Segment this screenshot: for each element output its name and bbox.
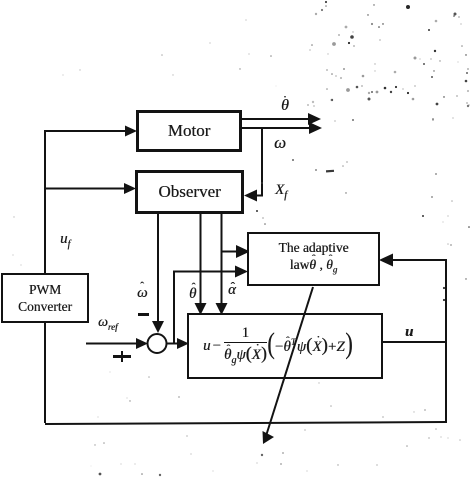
arrowhead: alpha-hat into control block	[216, 303, 228, 315]
wire: diagonal annotation arrow	[266, 287, 313, 436]
label: u_f	[60, 231, 70, 250]
arrowhead: into Observer	[124, 183, 136, 194]
label: plus at summing junction (horizontal stroke)	[113, 355, 131, 358]
label: minus at summing junction	[138, 313, 149, 316]
arrowhead: omega output	[309, 122, 322, 134]
arrowhead: into adaptive law upper input	[236, 245, 250, 258]
arrowhead: theta-hat into control block	[195, 303, 207, 315]
block: Observer	[135, 170, 244, 214]
wire: omega feedback down into Observer right side	[254, 129, 262, 196]
arrowhead: summing junction output into control block	[177, 338, 189, 349]
block: control law formula	[187, 313, 383, 379]
wire: omega-ref input	[86, 343, 137, 345]
block: PWM Converter	[1, 273, 89, 323]
wire: bottom feedback line	[45, 422, 446, 424]
label: plus at summing junction (vertical stroke)	[121, 351, 124, 362]
wire: alpha-hat from Observer down to control block	[221, 213, 223, 305]
label: X_f	[275, 182, 287, 201]
arrowhead: u feedback into adaptive law right side	[379, 254, 393, 267]
arrowhead: into Motor	[125, 126, 137, 137]
arrowhead: into Observer right (X_f)	[244, 190, 257, 202]
wire: control block output u	[381, 341, 446, 343]
arrowhead: theta-dot output	[308, 113, 321, 125]
wire: right feedback vertical	[445, 259, 447, 423]
arrowhead: diagonal annotation arrow tip	[263, 431, 275, 444]
wire: u feedback into adaptive law	[391, 259, 446, 261]
wire: branch to adaptive law upper input	[222, 251, 239, 253]
label: omega-ref	[98, 315, 118, 332]
wire: Motor output omega	[241, 127, 311, 129]
wire: left feedback vertical (u into PWM converter)	[44, 130, 46, 423]
wire: Motor output theta-dot	[241, 118, 310, 120]
label: theta-hat	[189, 286, 196, 303]
wire: error tap up to adaptive law lower input	[174, 272, 238, 344]
label: alpha-hat	[228, 282, 236, 299]
wire: omega-hat from Observer down to summing junction	[157, 213, 159, 322]
wire: u_f to Motor	[44, 130, 126, 132]
block: The adaptive law	[247, 232, 380, 286]
label: u output	[405, 324, 413, 341]
label: theta-dot (Motor top output)	[281, 97, 289, 115]
block: Motor	[136, 110, 242, 152]
summing junction	[148, 334, 167, 353]
label: omega (Motor second output)	[274, 133, 286, 153]
wire: summing junction to control block	[167, 343, 178, 345]
arrowhead: omega-ref into summing junction	[136, 338, 148, 349]
arrowhead: omega-hat into summing junction	[152, 321, 164, 333]
arrowhead: into adaptive law lower input	[235, 266, 248, 278]
wire: u_f to Observer	[44, 188, 125, 190]
wire: theta-hat from Observer down to control block	[200, 213, 202, 305]
label: omega-hat	[137, 285, 148, 302]
